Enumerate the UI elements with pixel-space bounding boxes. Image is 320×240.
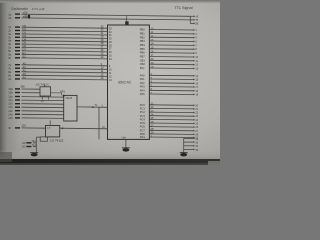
svg-text:PC7: PC7 [140,128,146,132]
wire D7 [22,51,108,52]
svg-text:12b: 12b [8,102,13,106]
pin 2a [15,26,20,27]
pin 8b [15,75,20,76]
wire IRQ [149,67,193,70]
wire PC7 [149,129,193,132]
wire to C1 [36,136,40,138]
pin 13a [15,107,20,108]
svg-text:CB1: CB1 [140,58,146,62]
wire comb stub [184,137,194,139]
svg-text:Geräteseite: Geräteseite [11,7,28,11]
svg-text:RS1: RS1 [140,135,146,139]
pin 1a [15,13,20,14]
IC U4 1/2 74123 body [46,126,60,137]
wire PB1 [149,32,193,35]
wire PC4 [149,118,193,121]
wire U1 pin8 Vcc tick [126,16,128,26]
svg-text:12a: 12a [8,98,13,102]
wire to U3 in2 [22,103,64,106]
wire comb stub [184,141,194,143]
wire to U3 in3 [22,106,64,109]
wire U2 bottom tick1 [41,96,43,100]
svg-text:13b: 13b [8,109,13,113]
wire feedback down [98,107,100,139]
svg-text:LG: LG [22,145,25,149]
pin 4a [15,40,20,41]
wire to U3 in1 [22,99,64,102]
wire PC1 [149,107,193,110]
svg-text:PC4: PC4 [140,118,146,122]
junction dot [63,95,65,97]
svg-text:PA2: PA2 [140,81,145,85]
svg-text:PB6: PB6 [140,51,145,55]
pin 8 blob [125,21,128,24]
wire PB5 [149,48,193,50]
pin 10b [15,92,20,93]
wire U2 top tick [44,85,46,87]
pin 6a [15,54,20,55]
wire D3 [22,37,108,38]
pin 8a [15,71,20,72]
IC U1 6502-AC body [108,25,150,139]
svg-text:AO: AO [22,141,26,145]
svg-text:11a: 11a [8,95,13,99]
pin 4b [15,43,20,44]
pin AO [26,142,31,143]
ground G1 [30,153,38,157]
svg-text:TTL Signal: TTL Signal [174,6,192,10]
wire CB2 [149,63,193,66]
svg-text:288: 288 [20,86,25,89]
wire PA0 [149,74,193,77]
svg-text:1b: 1b [8,16,12,20]
svg-text:AP1: AP1 [60,90,65,94]
wire bracket vertical [189,16,191,23]
wire ground drop [35,137,37,153]
pin 14b [15,117,20,118]
svg-text:IRQ: IRQ [140,66,145,70]
svg-text:PB4: PB4 [140,43,145,47]
pin 14a [15,114,20,115]
wire PB2 [149,36,193,39]
svg-text:PB2: PB2 [140,35,145,39]
svg-text:Uhr: Uhr [122,136,127,140]
svg-text:PB7: PB7 [140,55,145,59]
svg-text:PA0: PA0 [140,73,145,77]
wire A1 [22,68,108,69]
svg-text:PC5: PC5 [140,121,146,125]
svg-text:PA4: PA4 [140,88,145,92]
pin 10a [15,88,20,89]
wire comb stub [184,145,194,147]
wire U1 gnd [125,139,127,148]
wire PA5 [149,93,193,96]
pin 3b [15,37,20,38]
pin phi [15,127,20,128]
wire PC2 [149,111,193,114]
ground G3 [180,153,188,157]
wire PB3 [149,40,193,43]
wire +5V rail (top) [22,14,191,16]
wire A3 [22,75,108,76]
pin 5a [15,47,20,48]
wire D6 [22,48,108,49]
wire [33,146,36,148]
wire PB4 [149,44,193,47]
terminal stub +5 [190,15,193,17]
wire [33,142,36,144]
svg-text:PB3: PB3 [140,39,145,43]
svg-text:1/2 74121: 1/2 74121 [35,83,49,87]
svg-text:+5V█: +5V█ [23,15,31,19]
wire PA4 [149,89,193,92]
wire comb vertical [183,138,185,152]
pin 6b [15,57,20,58]
wire comb stub [184,149,194,151]
svg-text:PA5: PA5 [140,92,145,96]
svg-text:PC3: PC3 [140,114,146,118]
wire PB7 [149,56,193,59]
svg-text:1=TL ps8: 1=TL ps8 [32,7,45,11]
wire +5V rail (second) [22,18,191,20]
wire CB1 [149,59,193,62]
wire D5 [22,44,108,45]
svg-text:CB2: CB2 [140,62,146,66]
wire PC6 [149,126,193,129]
wire RS1 [149,136,193,139]
svg-text:PA3: PA3 [140,85,145,89]
svg-text:PC2: PC2 [140,110,146,114]
wire E2 [22,58,108,59]
wire PB6 [149,52,193,55]
pin LG [26,146,31,147]
wire to U3 in5 [22,113,64,116]
wire U2 bottom tick2 [48,96,50,100]
svg-text:1 T: 1 T [47,127,51,130]
wire PB0 [149,29,193,32]
svg-text:PC6: PC6 [140,125,146,129]
wire D4 [22,41,108,42]
wire D1 [22,31,108,32]
IC U2 1/2 74121 body [40,87,51,96]
svg-text:14a: 14a [8,112,13,116]
wire PA2 [149,82,193,85]
wire to U3 in4 [22,110,64,113]
wire PC5 [149,122,193,125]
wire D2 [22,34,108,35]
IC U3 74123 body [64,95,77,121]
pin 5b [15,50,20,51]
wire phi to U4 [22,127,46,129]
terminal stub 75 [190,19,193,21]
wire PC3 [149,115,193,118]
ground G2 [122,148,130,152]
svg-text:PB0: PB0 [140,28,145,32]
pin 12b [15,103,20,104]
wire PA1 [149,78,193,81]
wire to U2 in1 [22,88,41,90]
svg-text:PC0: PC0 [140,103,146,107]
svg-text:PC1: PC1 [140,107,146,111]
pin 12a [15,99,20,100]
pin 1b [15,17,20,18]
wire D0 [22,27,108,28]
svg-text:200: 200 [22,125,27,128]
wire A0 [22,65,108,66]
wire A4 [22,79,108,80]
wire U4 out to U1 [60,127,108,130]
wire to U2 in2 [22,92,41,94]
wire U4 top tick [49,120,51,125]
wire to U3 in0 [22,96,64,99]
junction dot [92,106,94,108]
pin 11a [15,96,20,97]
pin 2b [15,30,20,31]
wire U2 out to U3 [51,93,62,96]
wire A2 [22,72,108,73]
svg-text:PA1: PA1 [140,77,145,81]
svg-text:74123: 74123 [65,97,73,100]
wire RS0 [149,133,193,136]
terminal stub 28 [190,23,193,25]
svg-text:13a: 13a [8,105,13,109]
svg-text:6502 AC: 6502 AC [118,80,132,84]
wire PA3 [149,86,193,89]
pin 13b [15,110,20,111]
pin 7b [15,68,20,69]
pin 3a [15,33,20,34]
pin 9a [15,78,20,79]
component C1 small box [40,137,47,141]
junction dot [62,128,64,130]
pin 7a [15,64,20,65]
wire PC0 [149,104,193,107]
wire U3 out to U1 [77,106,108,108]
wire to U3 in6 [22,117,64,120]
svg-text:PB5: PB5 [140,47,145,51]
svg-text:1/2 74123: 1/2 74123 [50,138,64,142]
svg-text:PB1: PB1 [140,32,145,36]
wire E1 [22,54,108,55]
svg-text:14b: 14b [8,116,13,120]
